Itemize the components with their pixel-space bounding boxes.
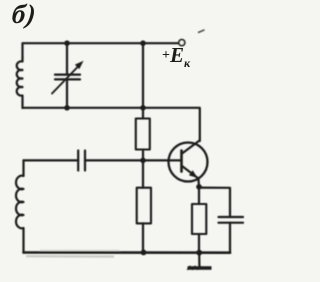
inductor L2 (lower-left coil)	[16, 160, 24, 252]
wire top supply rail from tank top-left corner to +Ek terminal	[23, 43, 180, 58]
capacitor C2 coupling, right plate	[84, 151, 86, 171]
scan smudge under ground rail	[26, 255, 114, 258]
resistor R3 upper lead	[198, 187, 200, 204]
junction node: emitter	[196, 184, 202, 190]
transistor Q1 emitter line	[182, 166, 198, 178]
junction node: cap branch / collector rail	[64, 105, 70, 111]
resistor R3 body	[192, 204, 206, 234]
wire variable-capacitor branch upper lead	[66, 43, 68, 74]
label b) figure letter	[10, 0, 38, 30]
resistor R1 lower lead	[142, 150, 144, 161]
ground symbol	[187, 266, 211, 270]
terminal circle +Ek	[179, 40, 185, 46]
junction node: R2 / ground rail	[141, 250, 147, 256]
transistor Q1 body circle	[169, 143, 208, 182]
capacitor C1 variable, top plate	[55, 73, 80, 75]
capacitor C2 coupling, left plate	[77, 151, 79, 171]
junction node: top rail / supply feed	[140, 40, 146, 46]
resistor R3 lower lead	[198, 234, 200, 253]
arrow of variable capacitor C1	[52, 66, 79, 94]
wire ground lead	[198, 253, 200, 266]
wire collector rail (tank bottom, runs right and down to collector)	[23, 108, 200, 141]
resistor R2 lower lead	[142, 223, 144, 252]
label +Ek supply	[162, 43, 190, 71]
junction node: emitter branch / ground rail	[196, 250, 202, 256]
capacitor C3 bypass, top plate	[219, 216, 244, 218]
wire from emitter node right to bypass capacitor	[199, 188, 230, 217]
transistor Q1 base bar	[180, 151, 183, 172]
transistor Q1 emitter arrowhead	[189, 170, 198, 178]
wire bypass capacitor lower lead	[229, 223, 231, 253]
wire base line (from coupling capacitor to transistor base)	[85, 159, 181, 161]
transistor Q1 collector line	[182, 141, 200, 154]
resistor R1 upper lead	[142, 108, 144, 119]
wire ground rail (bottom wire)	[24, 251, 231, 254]
wire supply feed vertical (from +Ek rail down to collector rail)	[142, 43, 144, 108]
capacitor C3 bypass, bottom plate	[219, 222, 244, 224]
arrowhead of variable capacitor C1	[75, 61, 84, 69]
stray scan speck near top right	[198, 30, 205, 33]
resistor R2 body	[137, 188, 151, 224]
inductor L1 (tank coil, left branch)	[17, 57, 23, 108]
wire variable-capacitor branch lower lead	[66, 79, 68, 107]
junction node: base line / bias divider	[140, 158, 146, 164]
capacitor C1 variable, bottom plate	[55, 78, 80, 80]
resistor R2 upper lead	[142, 160, 144, 187]
resistor R1 body	[136, 119, 150, 150]
junction node: tank top / cap branch	[64, 40, 70, 46]
junction node: supply feed / collector rail	[140, 105, 146, 111]
wire emitter stub down to emitter node	[197, 178, 200, 187]
wire from lower coil to coupling capacitor	[24, 159, 79, 161]
